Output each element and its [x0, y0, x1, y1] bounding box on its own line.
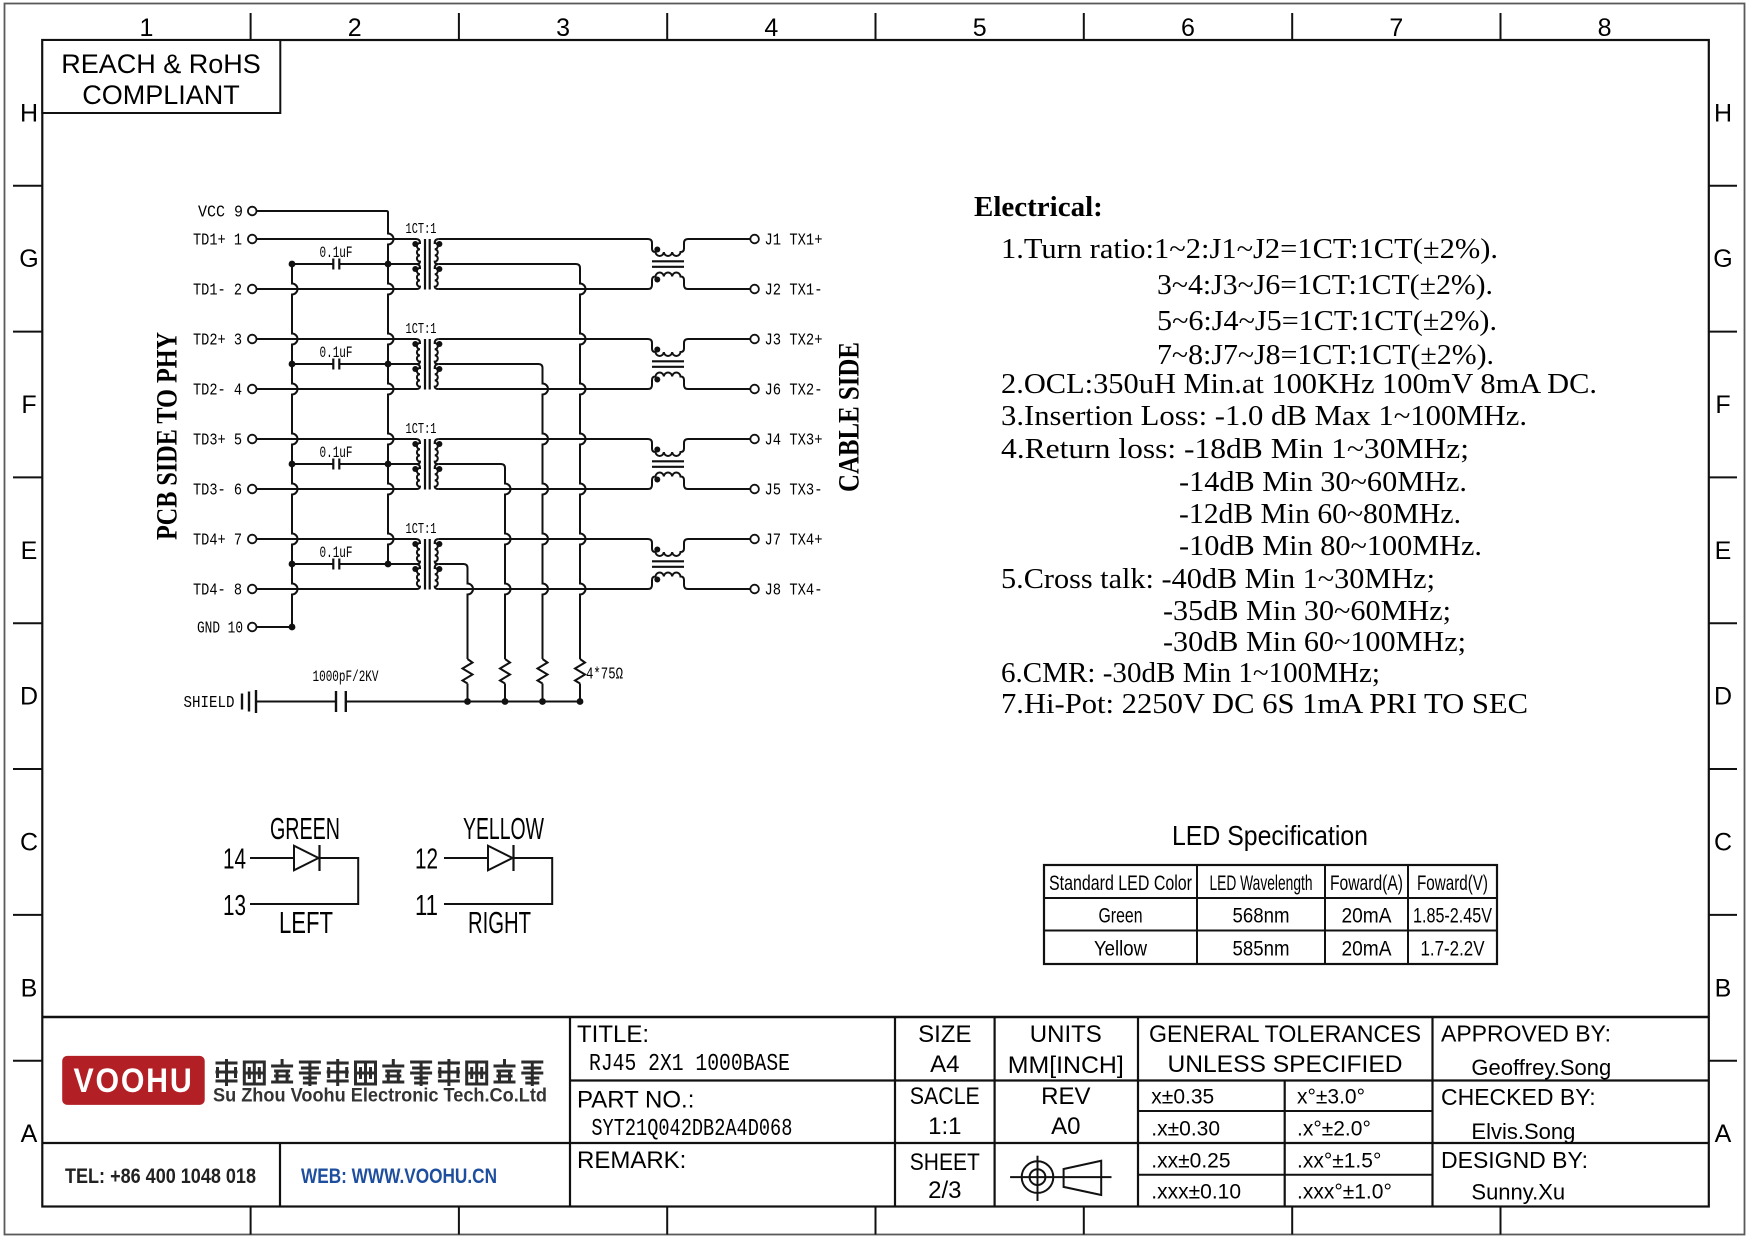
capacitor C5 1000pF/2KV	[313, 668, 379, 712]
svg-text:REACH & RoHS: REACH & RoHS	[61, 49, 261, 79]
wire C2 to T2 center tap	[339, 363, 416, 365]
wire TD3- to T3	[257, 488, 417, 490]
svg-text:Foward(V): Foward(V)	[1417, 872, 1488, 895]
svg-text:1000pF/2KV: 1000pF/2KV	[313, 668, 379, 686]
svg-text:Su Zhou Voohu Electronic Tech.: Su Zhou Voohu Electronic Tech.Co.Ltd	[213, 1086, 547, 1107]
third angle projection symbol	[1010, 1156, 1111, 1201]
logo VOOHU red box	[62, 1056, 205, 1105]
svg-text:PART NO.:: PART NO.:	[577, 1087, 694, 1114]
pin J6 TX2-	[750, 382, 822, 401]
svg-text:Green: Green	[1099, 905, 1143, 928]
svg-text:1.85-2.45V: 1.85-2.45V	[1413, 905, 1492, 928]
svg-text:Yellow: Yellow	[1094, 938, 1148, 961]
svg-text:SHEET: SHEET	[910, 1149, 980, 1176]
pin TD3+ 5	[193, 432, 257, 451]
wire T3 centre tap to R3	[439, 464, 511, 659]
wire C1 left	[292, 263, 333, 265]
svg-text:2/3: 2/3	[928, 1177, 961, 1204]
svg-text:LEFT: LEFT	[279, 905, 333, 940]
svg-text:B: B	[21, 974, 38, 1002]
svg-text:TD4- 8: TD4- 8	[193, 582, 242, 601]
wire T2 secondary bottom to L2	[439, 388, 648, 390]
svg-text:REV: REV	[1041, 1083, 1090, 1110]
pin J5 TX3-	[750, 482, 822, 501]
svg-text:D: D	[1714, 683, 1732, 711]
junction C1 VCC rail	[385, 261, 392, 268]
svg-text:GENERAL TOLERANCES: GENERAL TOLERANCES	[1149, 1021, 1421, 1048]
shield terminal symbol	[184, 690, 257, 713]
svg-text:20mA: 20mA	[1342, 938, 1392, 961]
capacitor C2 0.1uF	[320, 344, 353, 370]
svg-text:E: E	[21, 537, 38, 565]
text REV A0	[1041, 1083, 1090, 1140]
svg-text:A: A	[21, 1120, 38, 1148]
pin TD1+ 1	[193, 232, 257, 251]
svg-text:H: H	[1714, 99, 1732, 127]
svg-text:J1 TX1+: J1 TX1+	[765, 232, 823, 251]
transformer T1 1CT:1	[406, 222, 443, 290]
svg-text:-10dB Min 80~100MHz.: -10dB Min 80~100MHz.	[1179, 530, 1482, 562]
svg-text:.x±0.30: .x±0.30	[1151, 1118, 1220, 1141]
resistor R3 75 ohm	[500, 659, 510, 705]
pin J8 TX4-	[750, 582, 822, 601]
svg-text:G: G	[1713, 245, 1732, 273]
pin TD3- 6	[193, 482, 257, 501]
svg-text:F: F	[1715, 391, 1730, 419]
svg-text:5.Cross talk: -40dB Min 1~30MH: 5.Cross talk: -40dB Min 1~30MHz;	[1001, 563, 1435, 595]
svg-text:1CT:1: 1CT:1	[406, 522, 437, 538]
text UNITS MM[INCH]	[1008, 1021, 1124, 1079]
wire TD2+ to T2	[257, 338, 417, 340]
svg-text:6.CMR: -30dB Min 1~100MHz;: 6.CMR: -30dB Min 1~100MHz;	[1001, 657, 1380, 689]
svg-text:x±0.35: x±0.35	[1151, 1086, 1214, 1109]
pin J3 TX2+	[750, 332, 822, 351]
svg-text:6: 6	[1181, 14, 1195, 42]
svg-text:7~8:J7~J8=1CT:1CT(±2%).: 7~8:J7~J8=1CT:1CT(±2%).	[1157, 339, 1494, 371]
capacitor C3 0.1uF	[320, 444, 353, 470]
svg-text:SIZE: SIZE	[918, 1021, 971, 1048]
svg-text:CHECKED BY:: CHECKED BY:	[1441, 1084, 1596, 1110]
svg-text:E: E	[1715, 537, 1732, 565]
logo chinese company name	[216, 1059, 238, 1086]
choke L4 common-mode	[648, 539, 750, 589]
svg-text:.xxx°±1.0°: .xxx°±1.0°	[1297, 1181, 1392, 1204]
text tolerance values	[1151, 1086, 1392, 1204]
svg-text:-35dB Min 30~60MHz;: -35dB Min 30~60MHz;	[1163, 595, 1451, 627]
junction C4 VCC rail	[385, 561, 392, 568]
text SIZE A4	[918, 1021, 971, 1078]
svg-text:COMPLIANT: COMPLIANT	[82, 80, 240, 110]
wire C5 to resistor bus	[346, 701, 580, 703]
junction GND rail	[289, 624, 296, 631]
svg-text:Foward(A): Foward(A)	[1330, 872, 1403, 895]
svg-text:3~4:J3~J6=1CT:1CT(±2%).: 3~4:J3~J6=1CT:1CT(±2%).	[1157, 269, 1493, 301]
wire T1 secondary bottom to L1	[439, 288, 648, 290]
junction C1 GND rail	[289, 261, 296, 268]
svg-text:J8 TX4-: J8 TX4-	[765, 582, 823, 601]
svg-text:C: C	[1714, 828, 1732, 856]
svg-text:.xx°±1.5°: .xx°±1.5°	[1297, 1150, 1381, 1173]
svg-text:UNLESS SPECIFIED: UNLESS SPECIFIED	[1168, 1051, 1403, 1078]
pin TD2+ 3	[193, 332, 257, 351]
svg-text:1.Turn ratio:1~2:J1~J2=1CT:1CT: 1.Turn ratio:1~2:J1~J2=1CT:1CT(±2%).	[1001, 233, 1498, 265]
LED specification table grid	[1044, 865, 1497, 964]
frame column ticks	[251, 13, 1501, 1235]
transformer T4 1CT:1	[406, 522, 443, 590]
text electrical specifications	[1001, 233, 1597, 720]
svg-text:A: A	[1715, 1120, 1732, 1148]
svg-text:J5 TX3-: J5 TX3-	[765, 482, 823, 501]
resistor R1 75 ohm	[575, 659, 585, 705]
svg-text:TD1+ 1: TD1+ 1	[193, 232, 242, 251]
svg-text:J7 TX4+: J7 TX4+	[765, 532, 823, 551]
svg-text:7.Hi-Pot: 2250V DC 6S 1mA PRI: 7.Hi-Pot: 2250V DC 6S 1mA PRI TO SEC	[1001, 688, 1528, 720]
svg-text:LED Wavelength: LED Wavelength	[1210, 872, 1313, 895]
svg-text:.x°±2.0°: .x°±2.0°	[1297, 1118, 1371, 1141]
title block grid	[42, 1017, 1709, 1207]
pin J4 TX3+	[750, 432, 822, 451]
svg-text:568nm: 568nm	[1233, 905, 1290, 928]
pin GND 10	[197, 620, 257, 639]
svg-text:LED Specification: LED Specification	[1172, 820, 1368, 851]
frame row ticks	[13, 186, 1737, 1061]
svg-text:1.7-2.2V: 1.7-2.2V	[1421, 938, 1485, 961]
pin TD4+ 7	[193, 532, 257, 551]
svg-text:SYT21Q042DB2A4D068: SYT21Q042DB2A4D068	[591, 1116, 792, 1143]
pin TD2- 4	[193, 382, 257, 401]
svg-text:GND 10: GND 10	[197, 620, 243, 639]
svg-text:J3 TX2+: J3 TX2+	[765, 332, 823, 351]
wire T4 secondary top to L4	[439, 538, 648, 540]
choke L2 common-mode	[648, 339, 750, 389]
wire VCC pin to rail	[257, 211, 389, 213]
svg-text:TD2- 4: TD2- 4	[193, 382, 242, 401]
wire T3 secondary top to L3	[439, 438, 648, 440]
svg-text:REMARK:: REMARK:	[577, 1147, 686, 1174]
text GENERAL TOLERANCES	[1149, 1021, 1421, 1078]
svg-text:.xxx±0.10: .xxx±0.10	[1151, 1181, 1241, 1204]
junction C3 VCC rail	[385, 461, 392, 468]
capacitor C1 0.1uF	[320, 244, 353, 270]
text CHECKED BY	[1441, 1084, 1596, 1144]
wire SHIELD to C5	[256, 701, 336, 703]
svg-text:0.1uF: 0.1uF	[320, 344, 353, 362]
svg-text:-12dB Min 60~80MHz.: -12dB Min 60~80MHz.	[1179, 498, 1461, 530]
svg-text:TEL: +86 400 1048 018: TEL: +86 400 1048 018	[65, 1165, 256, 1188]
svg-text:SHIELD: SHIELD	[184, 694, 235, 713]
wire GND pin	[257, 626, 293, 628]
wire T4 secondary bottom to L4	[439, 588, 648, 590]
pin VCC 9	[198, 204, 257, 223]
svg-text:12: 12	[415, 844, 438, 876]
choke L3 common-mode	[648, 439, 750, 489]
svg-text:585nm: 585nm	[1233, 938, 1290, 961]
wire C3 left	[292, 463, 333, 465]
pin J7 TX4+	[750, 532, 822, 551]
pin TD4- 8	[193, 582, 257, 601]
wire TD4- to T4	[257, 588, 417, 590]
svg-text:MM[INCH]: MM[INCH]	[1008, 1052, 1124, 1079]
wire T1 centre tap to R1	[439, 264, 586, 659]
svg-text:2.OCL:350uH Min.at 100KHz 100m: 2.OCL:350uH Min.at 100KHz 100mV 8mA DC.	[1001, 368, 1597, 400]
svg-text:A4: A4	[930, 1051, 959, 1078]
svg-text:1CT:1: 1CT:1	[406, 422, 437, 438]
text SACLE 1:1	[910, 1083, 980, 1140]
svg-text:0.1uF: 0.1uF	[320, 544, 353, 562]
wire C3 to T3 center tap	[339, 463, 416, 465]
svg-text:7: 7	[1389, 14, 1403, 42]
wire TD4+ to T4	[257, 538, 417, 540]
capacitor C4 0.1uF	[320, 544, 353, 570]
wire TD1+ to T1	[257, 238, 417, 240]
svg-text:PCB SIDE TO PHY: PCB SIDE TO PHY	[151, 332, 184, 540]
svg-text:UNITS: UNITS	[1030, 1021, 1102, 1048]
resistor R4 75 ohm	[463, 659, 473, 705]
svg-text:TD4+ 7: TD4+ 7	[193, 532, 242, 551]
net VCC rail vertical	[388, 213, 394, 565]
junction C3 GND rail	[289, 461, 296, 468]
svg-text:VCC 9: VCC 9	[198, 204, 243, 223]
svg-text:APPROVED BY:: APPROVED BY:	[1441, 1021, 1611, 1047]
svg-text:H: H	[20, 99, 38, 127]
svg-text:RIGHT: RIGHT	[468, 905, 531, 940]
svg-text:A0: A0	[1051, 1113, 1080, 1140]
svg-text:SACLE: SACLE	[910, 1083, 980, 1110]
svg-text:WEB: WWW.VOOHU.CN: WEB: WWW.VOOHU.CN	[301, 1165, 497, 1188]
text DESIGND BY	[1441, 1147, 1588, 1205]
svg-text:J2 TX1-: J2 TX1-	[765, 282, 823, 301]
svg-text:Sunny.Xu: Sunny.Xu	[1471, 1180, 1565, 1205]
svg-text:Elvis.Song: Elvis.Song	[1471, 1119, 1575, 1144]
svg-text:TD2+ 3: TD2+ 3	[193, 332, 242, 351]
svg-text:13: 13	[223, 890, 246, 922]
svg-text:TD1- 2: TD1- 2	[193, 282, 242, 301]
pin J1 TX1+	[750, 232, 822, 251]
wire TD3+ to T3	[257, 438, 417, 440]
svg-text:C: C	[20, 828, 38, 856]
svg-text:TD3+ 5: TD3+ 5	[193, 432, 242, 451]
svg-text:B: B	[1715, 974, 1732, 1002]
LED D1 GREEN	[223, 844, 358, 923]
pin J2 TX1-	[750, 282, 822, 301]
svg-text:8: 8	[1598, 14, 1612, 42]
wire C4 left	[292, 563, 333, 565]
LED D2 YELLOW	[415, 844, 552, 923]
LED specification table text	[1049, 872, 1492, 961]
svg-text:TD3- 6: TD3- 6	[193, 482, 242, 501]
svg-text:Electrical:: Electrical:	[974, 191, 1103, 223]
svg-text:1CT:1: 1CT:1	[406, 322, 437, 338]
wire C1 to T1 center tap	[339, 263, 416, 265]
resistor R2 75 ohm	[538, 659, 548, 705]
junction C4 GND rail	[289, 561, 296, 568]
svg-text:-14dB Min 30~60MHz.: -14dB Min 30~60MHz.	[1179, 466, 1467, 498]
svg-text:11: 11	[415, 890, 438, 922]
svg-text:G: G	[19, 245, 38, 273]
wire T3 secondary bottom to L3	[439, 488, 648, 490]
choke L1 common-mode	[648, 239, 750, 289]
svg-text:Geoffrey.Song: Geoffrey.Song	[1471, 1055, 1611, 1080]
svg-text:D: D	[20, 683, 38, 711]
svg-text:4*75Ω: 4*75Ω	[586, 665, 623, 684]
svg-text:J4 TX3+: J4 TX3+	[765, 432, 823, 451]
transformer T3 1CT:1	[406, 422, 443, 490]
wire TD2- to T2	[257, 388, 417, 390]
svg-text:4: 4	[764, 14, 778, 42]
wire T2 centre tap to R2	[439, 364, 548, 659]
svg-text:RJ45 2X1 1000BASE: RJ45 2X1 1000BASE	[589, 1051, 790, 1078]
svg-text:3.Insertion Loss: -1.0 dB Max: 3.Insertion Loss: -1.0 dB Max 1~100MHz.	[1001, 400, 1527, 432]
svg-text:0.1uF: 0.1uF	[320, 244, 353, 262]
wire TD1- to T1	[257, 288, 417, 290]
svg-text:1:1: 1:1	[928, 1113, 961, 1140]
svg-text:1: 1	[140, 14, 154, 42]
wire T4 centre tap to R4	[439, 564, 473, 659]
svg-text:0.1uF: 0.1uF	[320, 444, 353, 462]
svg-text:1CT:1: 1CT:1	[406, 222, 437, 238]
svg-text:CABLE SIDE: CABLE SIDE	[833, 342, 866, 492]
svg-text:.xx±0.25: .xx±0.25	[1151, 1150, 1230, 1173]
svg-text:x°±3.0°: x°±3.0°	[1297, 1086, 1365, 1109]
svg-text:20mA: 20mA	[1342, 905, 1392, 928]
wire T1 secondary top to L1	[439, 238, 648, 240]
svg-text:Standard LED Color: Standard LED Color	[1049, 872, 1192, 895]
junction C2 VCC rail	[385, 361, 392, 368]
junction C2 GND rail	[289, 361, 296, 368]
svg-text:4.Return loss: -18dB Min 1~30M: 4.Return loss: -18dB Min 1~30MHz;	[1001, 433, 1469, 465]
svg-text:F: F	[21, 391, 36, 419]
svg-text:DESIGND BY:: DESIGND BY:	[1441, 1147, 1588, 1173]
wire C2 left	[292, 363, 333, 365]
svg-text:VOOHU: VOOHU	[74, 1062, 194, 1100]
REACH & RoHS COMPLIANT box	[42, 40, 280, 113]
text APPROVED BY	[1441, 1021, 1611, 1081]
wire C4 to T4 center tap	[339, 563, 416, 565]
svg-text:-30dB Min 60~100MHz;: -30dB Min 60~100MHz;	[1163, 626, 1466, 658]
pin TD1- 2	[193, 282, 257, 301]
svg-text:3: 3	[556, 14, 570, 42]
svg-text:GREEN: GREEN	[270, 811, 340, 846]
net GND rail vertical	[292, 264, 298, 627]
svg-text:14: 14	[223, 844, 246, 876]
wire T2 secondary top to L2	[439, 338, 648, 340]
svg-text:TITLE:: TITLE:	[577, 1021, 649, 1048]
transformer T2 1CT:1	[406, 322, 443, 390]
svg-text:5~6:J4~J5=1CT:1CT(±2%).: 5~6:J4~J5=1CT:1CT(±2%).	[1157, 305, 1497, 337]
frame column numbers 1-8 top	[140, 14, 1612, 42]
svg-text:5: 5	[973, 14, 987, 42]
svg-text:2: 2	[348, 14, 362, 42]
svg-text:YELLOW: YELLOW	[463, 811, 544, 846]
svg-text:J6 TX2-: J6 TX2-	[765, 382, 823, 401]
text SHEET 2/3	[910, 1149, 980, 1204]
